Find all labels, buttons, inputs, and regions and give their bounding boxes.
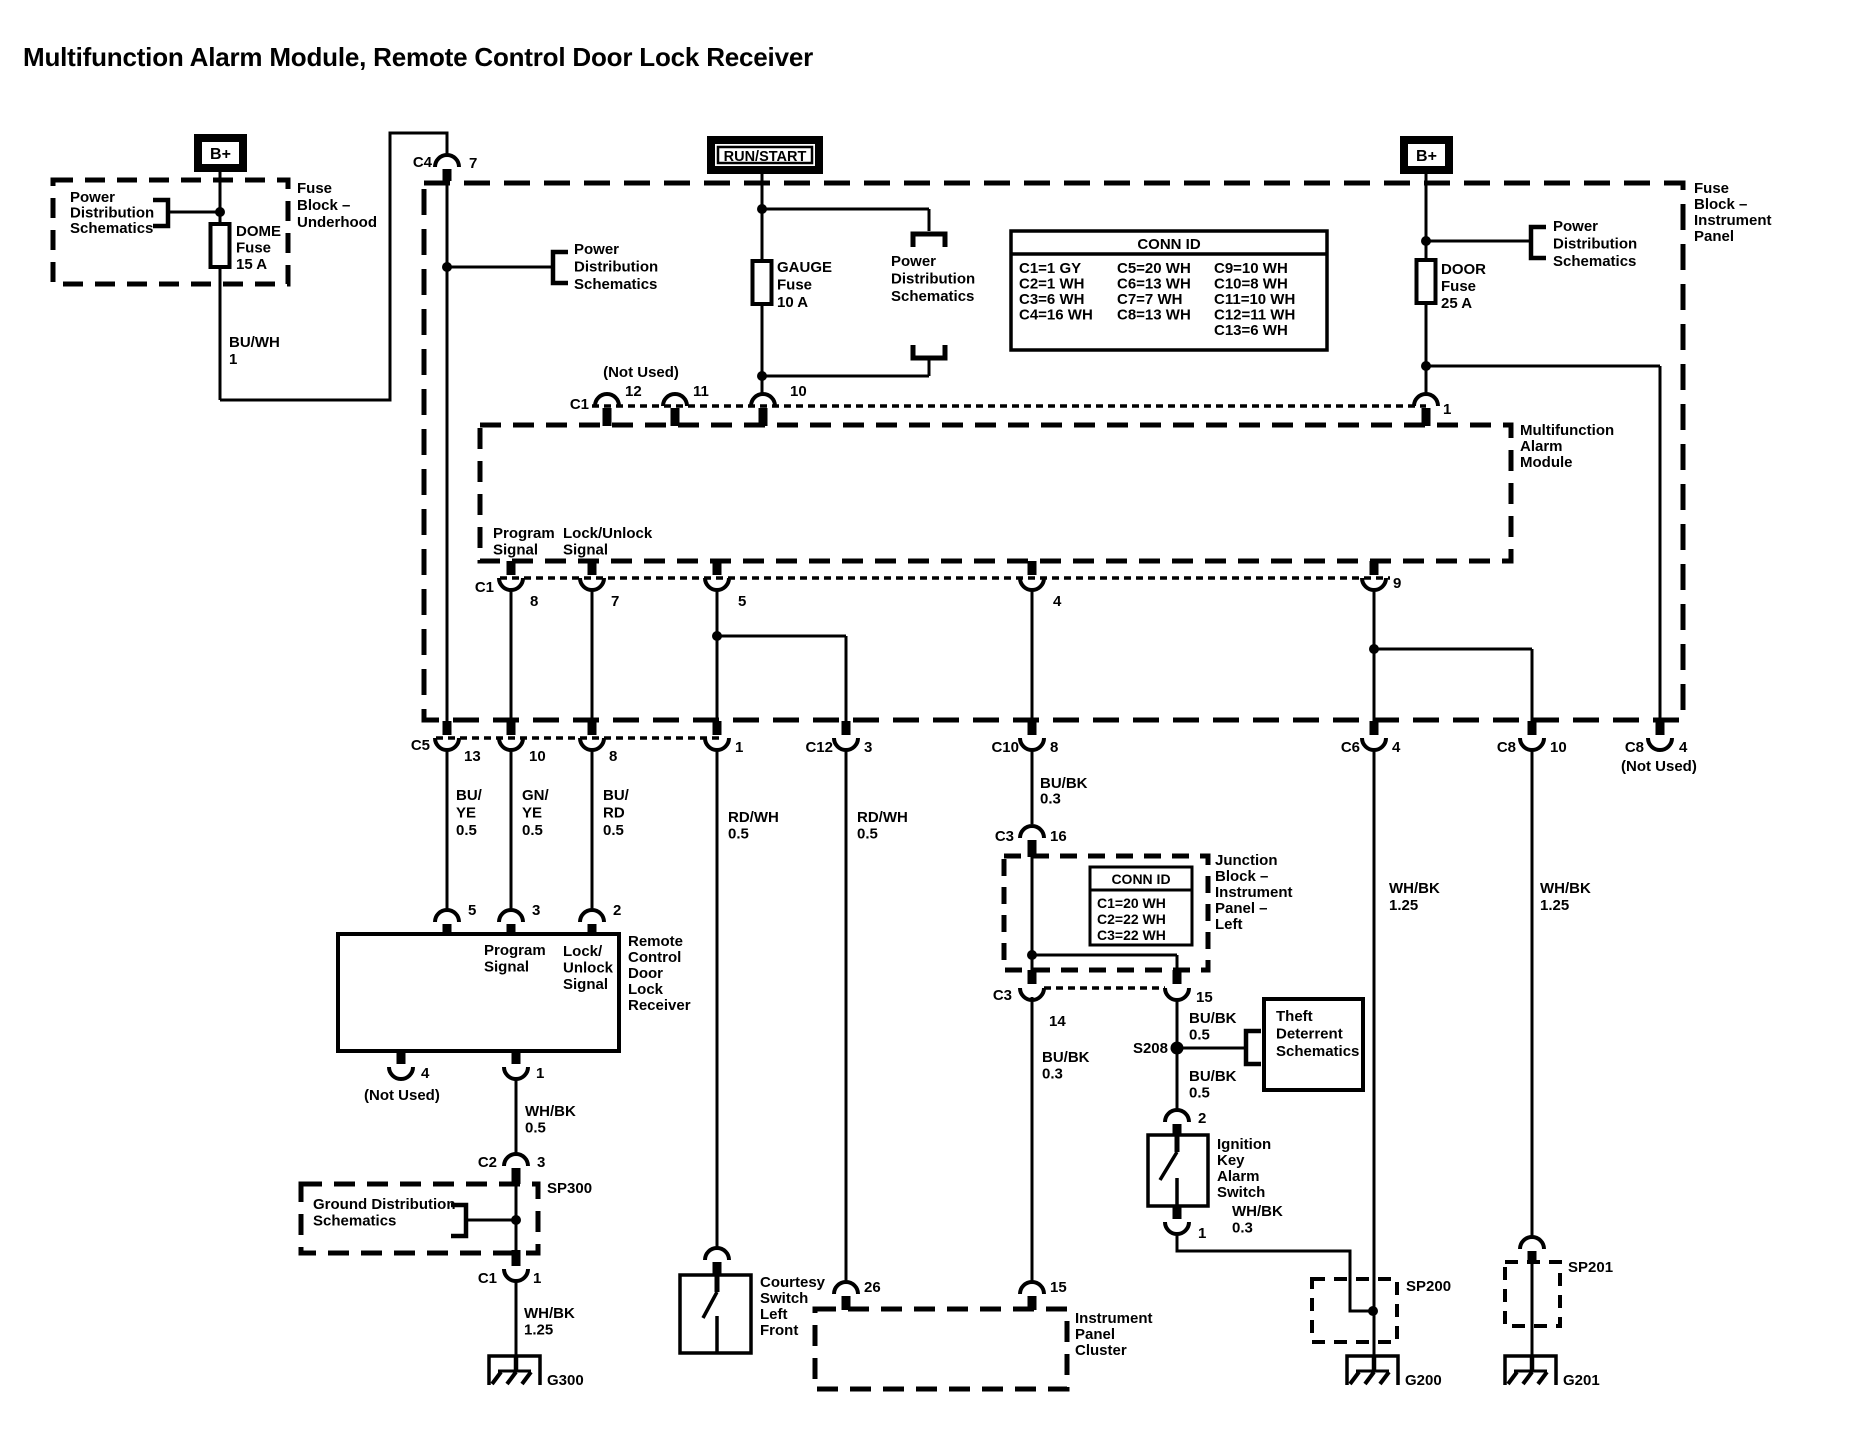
- svg-text:RD/WH: RD/WH: [728, 809, 779, 826]
- svg-text:SP200: SP200: [1406, 1278, 1451, 1295]
- svg-text:Panel: Panel: [1694, 228, 1734, 245]
- svg-text:10 A: 10 A: [777, 294, 808, 311]
- svg-text:(Not Used): (Not Used): [1621, 758, 1697, 775]
- svg-text:1.25: 1.25: [524, 1322, 553, 1339]
- svg-text:Distribution: Distribution: [1553, 236, 1637, 253]
- svg-text:C5=20 WH: C5=20 WH: [1117, 260, 1191, 277]
- svg-text:WH/BK: WH/BK: [1540, 880, 1591, 897]
- svg-text:10: 10: [529, 748, 546, 765]
- svg-text:B+: B+: [1416, 148, 1437, 165]
- svg-text:C1: C1: [570, 396, 589, 413]
- svg-text:C3=22 WH: C3=22 WH: [1097, 927, 1166, 943]
- svg-text:7: 7: [469, 155, 477, 172]
- svg-text:C4=16 WH: C4=16 WH: [1019, 307, 1093, 324]
- svg-text:0.3: 0.3: [1040, 791, 1061, 808]
- svg-text:4: 4: [1053, 593, 1062, 610]
- svg-text:Panel –: Panel –: [1215, 900, 1268, 917]
- svg-text:CONN ID: CONN ID: [1137, 236, 1201, 253]
- svg-text:Fuse: Fuse: [777, 277, 812, 294]
- svg-text:0.5: 0.5: [456, 822, 477, 839]
- svg-text:0.3: 0.3: [1232, 1220, 1253, 1237]
- svg-text:0.3: 0.3: [1042, 1066, 1063, 1083]
- svg-text:Lock/: Lock/: [563, 943, 603, 960]
- svg-text:(Not Used): (Not Used): [364, 1087, 440, 1104]
- svg-text:8: 8: [609, 748, 617, 765]
- svg-text:1: 1: [735, 739, 743, 756]
- svg-text:15 A: 15 A: [236, 256, 267, 273]
- svg-text:Fuse: Fuse: [1441, 278, 1476, 295]
- svg-text:Fuse: Fuse: [1694, 180, 1729, 197]
- svg-text:0.5: 0.5: [728, 826, 749, 843]
- svg-text:Instrument: Instrument: [1694, 212, 1772, 229]
- svg-text:C3=6 WH: C3=6 WH: [1019, 291, 1084, 308]
- svg-text:Ignition: Ignition: [1217, 1136, 1271, 1153]
- svg-text:Instrument: Instrument: [1075, 1310, 1153, 1327]
- svg-text:Distribution: Distribution: [574, 259, 658, 276]
- svg-text:RD: RD: [603, 805, 625, 822]
- svg-text:15: 15: [1196, 989, 1213, 1006]
- svg-text:Front: Front: [760, 1322, 798, 1339]
- svg-text:Program: Program: [484, 942, 546, 959]
- svg-text:C1=20 WH: C1=20 WH: [1097, 895, 1166, 911]
- svg-text:G300: G300: [547, 1372, 584, 1389]
- svg-text:2: 2: [1198, 1110, 1206, 1127]
- svg-text:25 A: 25 A: [1441, 295, 1472, 312]
- svg-text:7: 7: [611, 593, 619, 610]
- svg-text:Schematics: Schematics: [70, 220, 153, 237]
- svg-text:SP201: SP201: [1568, 1259, 1613, 1276]
- svg-text:G200: G200: [1405, 1372, 1442, 1389]
- svg-text:Instrument: Instrument: [1215, 884, 1293, 901]
- svg-text:C2: C2: [478, 1154, 497, 1171]
- svg-text:Distribution: Distribution: [70, 205, 154, 222]
- svg-text:Schematics: Schematics: [1276, 1043, 1359, 1060]
- svg-text:C1: C1: [475, 579, 494, 596]
- svg-text:8: 8: [1050, 739, 1058, 756]
- svg-text:13: 13: [464, 748, 481, 765]
- svg-text:S208: S208: [1133, 1040, 1168, 1057]
- svg-text:C9=10 WH: C9=10 WH: [1214, 260, 1288, 277]
- svg-text:C12=11 WH: C12=11 WH: [1214, 307, 1295, 324]
- svg-text:Key: Key: [1217, 1152, 1245, 1169]
- svg-text:12: 12: [625, 383, 642, 400]
- svg-text:C12: C12: [805, 739, 833, 756]
- svg-text:C5: C5: [411, 737, 430, 754]
- svg-text:C10=8 WH: C10=8 WH: [1214, 276, 1288, 293]
- svg-text:Schematics: Schematics: [313, 1213, 396, 1230]
- svg-text:1.25: 1.25: [1540, 897, 1569, 914]
- svg-text:C8: C8: [1625, 739, 1644, 756]
- svg-text:DOME: DOME: [236, 223, 281, 240]
- svg-text:BU/BK: BU/BK: [1040, 775, 1088, 792]
- svg-text:Remote: Remote: [628, 933, 683, 950]
- svg-text:DOOR: DOOR: [1441, 261, 1486, 278]
- svg-text:5: 5: [738, 593, 746, 610]
- svg-text:Control: Control: [628, 949, 681, 966]
- svg-text:1: 1: [1198, 1225, 1206, 1242]
- svg-text:Distribution: Distribution: [891, 271, 975, 288]
- svg-text:8: 8: [530, 593, 538, 610]
- svg-text:Cluster: Cluster: [1075, 1342, 1127, 1359]
- svg-text:3: 3: [864, 739, 872, 756]
- svg-text:C13=6 WH: C13=6 WH: [1214, 322, 1288, 339]
- svg-text:Ground Distribution: Ground Distribution: [313, 1196, 455, 1213]
- svg-text:Schematics: Schematics: [574, 276, 657, 293]
- svg-text:C3: C3: [995, 828, 1014, 845]
- svg-text:Courtesy: Courtesy: [760, 1274, 826, 1291]
- svg-text:4: 4: [1392, 739, 1401, 756]
- svg-text:GN/: GN/: [522, 787, 550, 804]
- svg-text:4: 4: [1679, 739, 1688, 756]
- svg-text:Block –: Block –: [297, 197, 350, 214]
- svg-text:1.25: 1.25: [1389, 897, 1418, 914]
- svg-text:Signal: Signal: [563, 542, 608, 559]
- svg-text:Power: Power: [574, 241, 619, 258]
- svg-text:0.5: 0.5: [1189, 1027, 1210, 1044]
- svg-text:16: 16: [1050, 828, 1067, 845]
- svg-text:WH/BK: WH/BK: [1389, 880, 1440, 897]
- svg-text:C8=13 WH: C8=13 WH: [1117, 307, 1191, 324]
- svg-text:C2=22 WH: C2=22 WH: [1097, 911, 1166, 927]
- svg-text:Alarm: Alarm: [1520, 438, 1563, 455]
- svg-text:1: 1: [533, 1270, 541, 1287]
- svg-text:Signal: Signal: [484, 959, 529, 976]
- svg-text:WH/BK: WH/BK: [525, 1103, 576, 1120]
- svg-text:0.5: 0.5: [525, 1120, 546, 1137]
- svg-text:C10: C10: [991, 739, 1019, 756]
- svg-text:Multifunction Alarm Module, Re: Multifunction Alarm Module, Remote Contr…: [23, 42, 813, 72]
- svg-text:1: 1: [229, 351, 237, 368]
- svg-text:YE: YE: [522, 805, 542, 822]
- svg-text:Underhood: Underhood: [297, 214, 377, 231]
- svg-text:Power: Power: [891, 253, 936, 270]
- svg-text:Left: Left: [1215, 916, 1243, 933]
- svg-text:3: 3: [537, 1154, 545, 1171]
- svg-text:0.5: 0.5: [857, 826, 878, 843]
- svg-text:C1: C1: [478, 1270, 497, 1287]
- svg-text:B+: B+: [210, 146, 231, 163]
- svg-text:Power: Power: [1553, 218, 1598, 235]
- svg-text:BU/WH: BU/WH: [229, 334, 280, 351]
- svg-text:1: 1: [536, 1065, 544, 1082]
- svg-text:5: 5: [468, 902, 476, 919]
- svg-text:0.5: 0.5: [1189, 1085, 1210, 1102]
- svg-text:C1=1 GY: C1=1 GY: [1019, 260, 1081, 277]
- svg-text:Unlock: Unlock: [563, 960, 614, 977]
- svg-text:C8: C8: [1497, 739, 1516, 756]
- svg-text:BU/BK: BU/BK: [1189, 1068, 1237, 1085]
- svg-text:SP300: SP300: [547, 1180, 592, 1197]
- svg-text:Junction: Junction: [1215, 852, 1278, 869]
- svg-text:Receiver: Receiver: [628, 997, 691, 1014]
- svg-text:Panel: Panel: [1075, 1326, 1115, 1343]
- svg-text:Signal: Signal: [563, 976, 608, 993]
- svg-text:(Not Used): (Not Used): [603, 364, 679, 381]
- svg-text:BU/: BU/: [603, 787, 630, 804]
- svg-text:Block –: Block –: [1694, 196, 1747, 213]
- svg-text:2: 2: [613, 902, 621, 919]
- svg-text:WH/BK: WH/BK: [524, 1305, 575, 1322]
- svg-text:BU/BK: BU/BK: [1042, 1049, 1090, 1066]
- svg-text:15: 15: [1050, 1279, 1067, 1296]
- svg-text:Fuse: Fuse: [297, 180, 332, 197]
- svg-text:Switch: Switch: [760, 1290, 808, 1307]
- svg-text:BU/BK: BU/BK: [1189, 1010, 1237, 1027]
- svg-text:4: 4: [421, 1065, 430, 1082]
- svg-text:C6=13 WH: C6=13 WH: [1117, 276, 1191, 293]
- svg-text:Fuse: Fuse: [236, 240, 271, 257]
- svg-text:RUN/START: RUN/START: [724, 149, 807, 165]
- svg-text:1: 1: [1443, 401, 1451, 418]
- svg-text:C3: C3: [993, 987, 1012, 1004]
- svg-text:Alarm: Alarm: [1217, 1168, 1260, 1185]
- svg-text:14: 14: [1049, 1013, 1066, 1030]
- svg-text:Schematics: Schematics: [1553, 253, 1636, 270]
- svg-text:Multifunction: Multifunction: [1520, 422, 1614, 439]
- svg-text:C7=7 WH: C7=7 WH: [1117, 291, 1182, 308]
- svg-text:YE: YE: [456, 805, 476, 822]
- svg-text:CONN ID: CONN ID: [1111, 871, 1170, 887]
- svg-text:Door: Door: [628, 965, 663, 982]
- svg-text:Lock/Unlock: Lock/Unlock: [563, 525, 653, 542]
- svg-text:GAUGE: GAUGE: [777, 259, 832, 276]
- svg-text:Lock: Lock: [628, 981, 664, 998]
- svg-text:Switch: Switch: [1217, 1184, 1265, 1201]
- svg-text:WH/BK: WH/BK: [1232, 1203, 1283, 1220]
- svg-text:26: 26: [864, 1279, 881, 1296]
- svg-text:Block –: Block –: [1215, 868, 1268, 885]
- svg-text:C6: C6: [1341, 739, 1360, 756]
- svg-text:Theft: Theft: [1276, 1008, 1313, 1025]
- svg-text:3: 3: [532, 902, 540, 919]
- svg-text:10: 10: [1550, 739, 1567, 756]
- svg-text:0.5: 0.5: [603, 822, 624, 839]
- svg-text:9: 9: [1393, 575, 1401, 592]
- svg-text:C11=10 WH: C11=10 WH: [1214, 291, 1295, 308]
- svg-text:Power: Power: [70, 189, 115, 206]
- svg-text:Left: Left: [760, 1306, 788, 1323]
- svg-text:C2=1 WH: C2=1 WH: [1019, 276, 1084, 293]
- svg-text:11: 11: [693, 383, 709, 400]
- svg-text:BU/: BU/: [456, 787, 483, 804]
- svg-text:0.5: 0.5: [522, 822, 543, 839]
- svg-text:10: 10: [790, 383, 807, 400]
- svg-text:Deterrent: Deterrent: [1276, 1026, 1343, 1043]
- svg-text:G201: G201: [1563, 1372, 1600, 1389]
- svg-text:Signal: Signal: [493, 542, 538, 559]
- svg-text:Module: Module: [1520, 454, 1573, 471]
- svg-text:C4: C4: [413, 154, 433, 171]
- svg-text:Program: Program: [493, 525, 555, 542]
- svg-text:Schematics: Schematics: [891, 288, 974, 305]
- svg-text:RD/WH: RD/WH: [857, 809, 908, 826]
